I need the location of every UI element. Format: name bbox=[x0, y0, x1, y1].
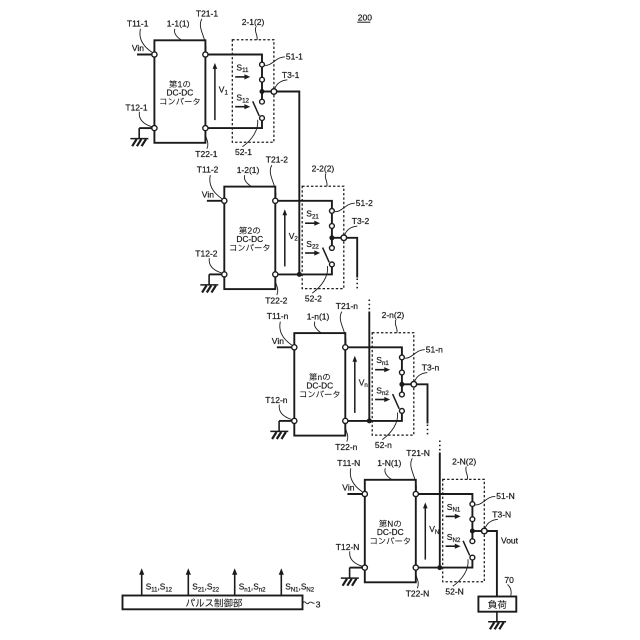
wire T21-1 to switch S11 bbox=[208, 55, 262, 63]
switch SN2 upper contact bbox=[470, 539, 475, 544]
terminal T22-1 bbox=[203, 126, 208, 131]
terminal T11-1 bbox=[152, 52, 157, 57]
converter text stage N bbox=[371, 520, 410, 545]
wire T3-2 output bbox=[347, 238, 358, 278]
pulse control box 3 bbox=[123, 596, 303, 610]
label 51-N bbox=[475, 491, 515, 505]
svg-text:DC-DC: DC-DC bbox=[377, 527, 404, 537]
label 51-1 bbox=[265, 52, 303, 66]
label T3-n bbox=[415, 363, 440, 382]
switch SN1 upper contact bbox=[470, 502, 475, 507]
label T12-1 bbox=[125, 102, 151, 127]
terminal T22-n bbox=[343, 418, 348, 423]
switch S22 upper contact bbox=[330, 246, 335, 251]
junction node (stage n) bbox=[399, 382, 404, 387]
label T12-N bbox=[336, 542, 363, 567]
wire Sn1 to node bbox=[401, 375, 403, 385]
label T12-2 bbox=[195, 249, 222, 274]
terminal T3-n bbox=[411, 382, 417, 388]
terminal T12-2 bbox=[222, 272, 227, 277]
svg-text:51-N: 51-N bbox=[496, 491, 514, 501]
wire T3-n output bbox=[417, 384, 428, 423]
control arrow Sn2 bbox=[375, 397, 390, 402]
switch Sn2 lower contact bbox=[400, 409, 405, 414]
switch SN1 lower contact bbox=[470, 517, 475, 522]
switch Sn2 blade (open) bbox=[393, 394, 400, 409]
pulse control text bbox=[186, 598, 242, 607]
svg-text:DC-DC: DC-DC bbox=[236, 234, 263, 244]
svg-text:T22-1: T22-1 bbox=[195, 149, 217, 159]
ground (stage n) bbox=[270, 421, 288, 439]
node Vin wire (stage 2) bbox=[202, 189, 225, 200]
wire S21 to node bbox=[331, 228, 333, 238]
svg-text:52-2: 52-2 bbox=[305, 293, 322, 303]
DC-DC converter box 1-N bbox=[365, 480, 416, 583]
ground (stage 1) bbox=[130, 128, 148, 146]
wire T3-N to load (Vout) bbox=[487, 531, 497, 597]
svg-text:T11-1: T11-1 bbox=[127, 18, 149, 28]
switch S12 blade (open) bbox=[253, 101, 260, 116]
label 70 bbox=[504, 575, 514, 596]
wire node to S22 bbox=[331, 238, 333, 246]
wire into stage-N rail (dotted) bbox=[439, 441, 441, 453]
load box 70 bbox=[478, 597, 516, 612]
svg-text:DC-DC: DC-DC bbox=[167, 88, 194, 98]
terminal T21-1 bbox=[203, 52, 208, 57]
svg-text:2-N(2): 2-N(2) bbox=[452, 457, 476, 467]
label T21-N bbox=[406, 448, 430, 491]
label 52-1 bbox=[235, 120, 258, 157]
svg-text:51-1: 51-1 bbox=[286, 52, 303, 62]
label 2-1(2) bbox=[242, 17, 265, 40]
terminal T22-N bbox=[413, 565, 418, 570]
wire T12-2 to ground bbox=[209, 273, 222, 275]
label 1-n(1) bbox=[307, 311, 330, 332]
node Vin wire (stage 1) bbox=[132, 43, 155, 54]
control arrow Sn1 bbox=[375, 367, 390, 372]
wire stage-N rail feed bbox=[439, 453, 441, 568]
svg-text:Vin: Vin bbox=[132, 43, 144, 53]
label S21 bbox=[306, 209, 319, 221]
label Sn1,Sn2 bbox=[239, 582, 266, 594]
control signal arrow S11,S12 bbox=[139, 568, 144, 595]
label T22-n bbox=[335, 425, 357, 452]
svg-text:T11-n: T11-n bbox=[267, 311, 289, 321]
label Sn2 bbox=[376, 385, 389, 397]
svg-text:T11-N: T11-N bbox=[337, 458, 360, 468]
voltage arrow V2 bbox=[283, 209, 299, 266]
junction node (stage 1) bbox=[260, 89, 265, 94]
wire T3-n continuation (dotted) bbox=[427, 425, 429, 437]
label T11-2 bbox=[197, 165, 222, 199]
svg-text:T12-2: T12-2 bbox=[195, 249, 217, 259]
label T11-N bbox=[337, 458, 362, 492]
switch unit dashed box 2-n(2) bbox=[372, 333, 414, 435]
wire T12-n to ground bbox=[279, 420, 292, 422]
label T21-1 bbox=[196, 8, 218, 51]
title 200 bbox=[357, 12, 372, 22]
svg-text:1-2(1): 1-2(1) bbox=[237, 165, 260, 175]
label SN1 bbox=[447, 502, 461, 514]
svg-text:T22-n: T22-n bbox=[335, 442, 357, 452]
ground (stage N) bbox=[341, 568, 359, 586]
svg-text:T3-1: T3-1 bbox=[282, 70, 300, 80]
control arrow S22 bbox=[305, 250, 320, 255]
label T21-2 bbox=[266, 155, 288, 198]
node Vin wire (stage N) bbox=[342, 483, 365, 494]
svg-text:200: 200 bbox=[358, 12, 372, 22]
junction node stage-n rail bbox=[367, 418, 372, 423]
converter text stage 1 bbox=[160, 80, 199, 105]
label 1-1(1) bbox=[167, 19, 190, 40]
label 1-N(1) bbox=[377, 458, 401, 479]
label S21,S22 bbox=[192, 582, 219, 594]
switch S22 lower contact bbox=[330, 262, 335, 267]
DC-DC converter box 1-1 bbox=[154, 40, 205, 143]
wire node to T3-2 bbox=[332, 237, 344, 239]
label SN1,SN2 bbox=[285, 582, 314, 594]
svg-text:T3-2: T3-2 bbox=[352, 216, 370, 226]
junction node (stage 2) bbox=[329, 235, 334, 240]
wire SN1 to node bbox=[471, 521, 473, 531]
voltage arrow VN bbox=[423, 502, 439, 559]
svg-text:T3-n: T3-n bbox=[422, 363, 440, 373]
DC-DC converter box 1-2 bbox=[224, 187, 275, 290]
svg-text:T12-N: T12-N bbox=[336, 542, 360, 552]
label T11-n bbox=[267, 311, 292, 345]
switch S21 upper contact bbox=[330, 209, 335, 214]
terminal T3-2 bbox=[341, 235, 347, 241]
label S11,S12 bbox=[146, 582, 173, 594]
label SN2 bbox=[447, 532, 461, 544]
switch unit dashed box 2-N(2) bbox=[443, 479, 485, 581]
control signal arrow S21,S22 bbox=[186, 568, 191, 595]
node Vin wire (stage n) bbox=[272, 336, 295, 347]
label 2-2(2) bbox=[312, 163, 335, 186]
svg-text:1-n(1): 1-n(1) bbox=[307, 311, 330, 321]
svg-text:Vin: Vin bbox=[202, 189, 214, 199]
control arrow S11 bbox=[235, 74, 250, 79]
label 3 bbox=[303, 600, 321, 610]
switch S11 contact wire bbox=[261, 65, 263, 80]
svg-text:T22-2: T22-2 bbox=[265, 296, 287, 306]
svg-text:2-2(2): 2-2(2) bbox=[312, 163, 335, 173]
svg-text:T21-2: T21-2 bbox=[266, 155, 288, 165]
control arrow SN1 bbox=[446, 514, 461, 519]
control arrow S21 bbox=[305, 221, 320, 226]
svg-text:T12-n: T12-n bbox=[265, 395, 287, 405]
wire T22-n rail to switch Sn2 bbox=[348, 413, 402, 421]
terminal T22-2 bbox=[273, 272, 278, 277]
switch Sn1 contact wire bbox=[401, 357, 403, 372]
label Vout bbox=[501, 536, 519, 546]
svg-text:T21-N: T21-N bbox=[406, 448, 430, 458]
svg-text:Vout: Vout bbox=[501, 536, 519, 546]
junction node stage-2 rail bbox=[297, 272, 302, 277]
control signal arrow SN1,SN2 bbox=[279, 568, 284, 595]
wire node to T3-n bbox=[402, 383, 414, 385]
terminal T12-n bbox=[292, 418, 297, 423]
switch Sn1 lower contact bbox=[400, 370, 405, 375]
terminal T12-N bbox=[362, 565, 367, 570]
svg-text:51-2: 51-2 bbox=[356, 198, 373, 208]
svg-text:T22-N: T22-N bbox=[406, 589, 430, 599]
label T22-2 bbox=[265, 278, 287, 305]
label 2-N(2) bbox=[452, 457, 476, 480]
wire T22-N rail to switch SN2 bbox=[418, 560, 472, 568]
svg-text:Vin: Vin bbox=[342, 483, 354, 493]
wire T3-2 continuation (dotted) bbox=[356, 279, 358, 291]
label T22-N bbox=[406, 571, 430, 598]
svg-text:3: 3 bbox=[316, 600, 321, 610]
switch SN1 contact wire bbox=[471, 504, 473, 519]
switch SN2 lower contact bbox=[470, 555, 475, 560]
svg-text:T21-n: T21-n bbox=[336, 301, 358, 311]
label T3-1 bbox=[275, 70, 300, 89]
label T11-1 bbox=[127, 18, 152, 52]
svg-text:52-N: 52-N bbox=[445, 587, 463, 597]
wire T12-N to ground bbox=[350, 567, 363, 569]
voltage arrow Vn bbox=[353, 356, 369, 413]
svg-text:T3-N: T3-N bbox=[492, 509, 511, 519]
label 52-2 bbox=[305, 266, 328, 303]
control arrow S12 bbox=[235, 104, 250, 109]
terminal T21-n bbox=[343, 345, 348, 350]
converter text stage 2 bbox=[230, 227, 269, 252]
wire into stage-n rail (dotted) bbox=[368, 300, 370, 312]
terminal T21-2 bbox=[273, 198, 278, 203]
switch S12 upper contact bbox=[260, 99, 265, 104]
label T3-N bbox=[485, 509, 511, 528]
label 52-n bbox=[375, 413, 398, 450]
label 51-2 bbox=[335, 198, 373, 212]
DC-DC converter box 1-n bbox=[294, 333, 345, 436]
label 52-N bbox=[445, 559, 468, 596]
switch S11 lower contact bbox=[260, 77, 265, 82]
wire T12-1 to ground bbox=[139, 127, 152, 129]
svg-text:1-1(1): 1-1(1) bbox=[167, 19, 190, 29]
terminal T12-1 bbox=[152, 126, 157, 131]
wire stage-n rail feed bbox=[368, 312, 370, 421]
label T22-1 bbox=[195, 132, 217, 159]
wire S11 to node bbox=[261, 82, 263, 92]
switch unit dashed box 2-2(2) bbox=[302, 186, 344, 288]
switch unit dashed box 2-1(2) bbox=[232, 40, 274, 142]
svg-text:T11-2: T11-2 bbox=[197, 165, 219, 175]
switch SN2 blade (open) bbox=[463, 541, 470, 556]
terminal T11-2 bbox=[222, 198, 227, 203]
wire T21-N to switch SN1 bbox=[418, 494, 472, 502]
wire node to Sn2 bbox=[401, 384, 403, 392]
label S12 bbox=[236, 93, 249, 105]
wire stage-2 rail junction to rail bbox=[298, 273, 300, 275]
label Sn1 bbox=[376, 355, 389, 367]
svg-text:T21-1: T21-1 bbox=[196, 8, 218, 18]
terminal T11-n bbox=[292, 345, 297, 350]
label T21-n bbox=[336, 301, 358, 344]
switch S11 upper contact bbox=[260, 62, 265, 67]
label 51-n bbox=[405, 344, 443, 358]
label S11 bbox=[236, 62, 249, 74]
junction node (stage N) bbox=[470, 529, 475, 534]
switch S22 blade (open) bbox=[323, 248, 330, 263]
svg-text:2-n(2): 2-n(2) bbox=[382, 310, 405, 320]
terminal T11-N bbox=[362, 491, 367, 496]
junction node stage-N rail bbox=[437, 565, 442, 570]
terminal T3-1 bbox=[271, 89, 277, 95]
label 2-n(2) bbox=[382, 310, 405, 333]
switch S21 contact wire bbox=[331, 211, 333, 226]
label 1-2(1) bbox=[237, 165, 260, 186]
svg-text:Vin: Vin bbox=[272, 336, 284, 346]
label T12-n bbox=[265, 395, 292, 420]
switch Sn1 upper contact bbox=[400, 355, 405, 360]
svg-text:70: 70 bbox=[504, 575, 514, 585]
svg-text:T12-1: T12-1 bbox=[125, 102, 147, 112]
wire T22-1 rail to switch S12 bbox=[208, 120, 262, 128]
voltage arrow V1 bbox=[213, 63, 229, 120]
wire node to T3-N bbox=[472, 530, 484, 532]
control signal arrow Sn1,Sn2 bbox=[232, 568, 237, 595]
wire T3-1 to stage-2 rail bbox=[277, 92, 300, 275]
svg-text:1-N(1): 1-N(1) bbox=[377, 458, 401, 468]
wire T22-2 rail to switch S22 bbox=[278, 267, 332, 275]
ground (stage 2) bbox=[200, 274, 218, 292]
switch S12 lower contact bbox=[260, 116, 265, 121]
wire T21-2 to switch S21 bbox=[278, 201, 332, 209]
terminal T21-N bbox=[413, 491, 418, 496]
svg-text:52-n: 52-n bbox=[375, 440, 392, 450]
wire node to SN2 bbox=[471, 531, 473, 539]
svg-text:51-n: 51-n bbox=[426, 344, 443, 354]
terminal T3-N bbox=[482, 528, 488, 534]
wire T21-n to switch Sn1 bbox=[348, 347, 402, 355]
svg-text:2-1(2): 2-1(2) bbox=[242, 17, 265, 27]
svg-text:DC-DC: DC-DC bbox=[306, 381, 333, 391]
wire node to T3-1 bbox=[262, 91, 274, 93]
label S22 bbox=[306, 239, 319, 251]
control arrow SN2 bbox=[446, 544, 461, 549]
wire node to S12 bbox=[261, 92, 263, 100]
load ground bbox=[488, 612, 506, 630]
switch Sn2 upper contact bbox=[400, 392, 405, 397]
converter text stage n bbox=[300, 373, 339, 398]
svg-text:52-1: 52-1 bbox=[235, 147, 252, 157]
load text bbox=[488, 600, 506, 609]
label T3-2 bbox=[345, 216, 370, 235]
switch S21 lower contact bbox=[330, 224, 335, 229]
